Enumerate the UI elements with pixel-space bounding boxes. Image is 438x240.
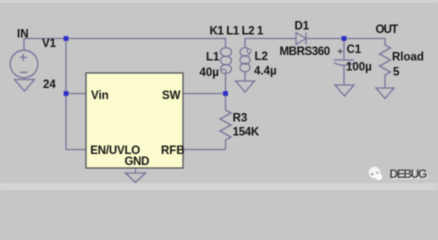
svg-text:4.4µ: 4.4µ bbox=[254, 66, 277, 78]
ground below V1 bbox=[15, 80, 35, 92]
svg-text:5: 5 bbox=[393, 67, 400, 79]
svg-text:24: 24 bbox=[43, 79, 56, 91]
wires (nets) bbox=[24, 39, 385, 174]
wire L2 bottom bbox=[244, 71, 246, 81]
wire L2 top to diode bbox=[245, 39, 296, 48]
svg-text:RFB: RFB bbox=[161, 145, 185, 157]
svg-text:L2: L2 bbox=[255, 51, 268, 63]
svg-text:C1: C1 bbox=[347, 44, 362, 56]
svg-text:IN: IN bbox=[17, 29, 29, 41]
svg-text:DEBUG: DEBUG bbox=[390, 167, 428, 181]
svg-text:GND: GND bbox=[125, 156, 150, 168]
svg-text:Vin: Vin bbox=[91, 90, 109, 102]
junction node Vin pin bbox=[64, 91, 69, 96]
diode D1 bbox=[296, 33, 306, 45]
wire diode to out bbox=[307, 39, 386, 46]
resistor R3 bbox=[220, 110, 231, 140]
wire sw stub bbox=[183, 93, 226, 95]
svg-text:D1: D1 bbox=[295, 21, 310, 33]
IC U1 body bbox=[86, 73, 183, 168]
wire V1 to ground bbox=[23, 78, 25, 80]
svg-text:100µ: 100µ bbox=[346, 62, 372, 74]
svg-text:MBRS360: MBRS360 bbox=[280, 46, 330, 58]
svg-text:SW: SW bbox=[162, 90, 181, 102]
svg-text:K1 L1 L2 1: K1 L1 L2 1 bbox=[210, 26, 265, 38]
wire vin vertical bbox=[66, 39, 86, 150]
inductor L2 bbox=[240, 48, 250, 72]
wire GND pin stub bbox=[135, 168, 137, 173]
wire Rload bottom bbox=[384, 79, 386, 88]
capacitor C1 bbox=[334, 60, 354, 65]
svg-text:154K: 154K bbox=[233, 127, 260, 139]
watermark icon bbox=[369, 167, 382, 181]
wire input top bbox=[24, 39, 226, 51]
wire C1 top bbox=[343, 39, 345, 61]
svg-text:OUT: OUT bbox=[376, 24, 399, 36]
svg-text:Rload: Rload bbox=[392, 52, 424, 64]
wire C1 bottom bbox=[343, 66, 345, 85]
junction node OUT/C1 bbox=[342, 36, 347, 41]
wire L1 bottom bbox=[225, 73, 227, 110]
svg-text:R3: R3 bbox=[233, 113, 248, 125]
ground below Rload bbox=[376, 88, 394, 99]
wire vin stub bbox=[66, 93, 86, 95]
wire R3 bottom to RFB bbox=[183, 140, 226, 150]
svg-text:40µ: 40µ bbox=[200, 67, 219, 79]
phase dot L1 bbox=[222, 69, 226, 73]
ground below L2 bbox=[236, 81, 255, 92]
ground below C1 bbox=[335, 85, 354, 96]
junction node SW/L1/R3 bbox=[223, 91, 228, 96]
phase dot L2 bbox=[247, 49, 251, 53]
voltage source V1 bbox=[10, 50, 38, 78]
svg-text:V1: V1 bbox=[42, 38, 57, 50]
resistor Rload bbox=[380, 45, 391, 79]
svg-text:L1: L1 bbox=[206, 52, 220, 64]
ground below IC bbox=[126, 173, 146, 183]
inductor L1 bbox=[221, 48, 232, 74]
C1 plus sign bbox=[338, 49, 343, 54]
junction node IN-Vin bbox=[64, 36, 69, 41]
